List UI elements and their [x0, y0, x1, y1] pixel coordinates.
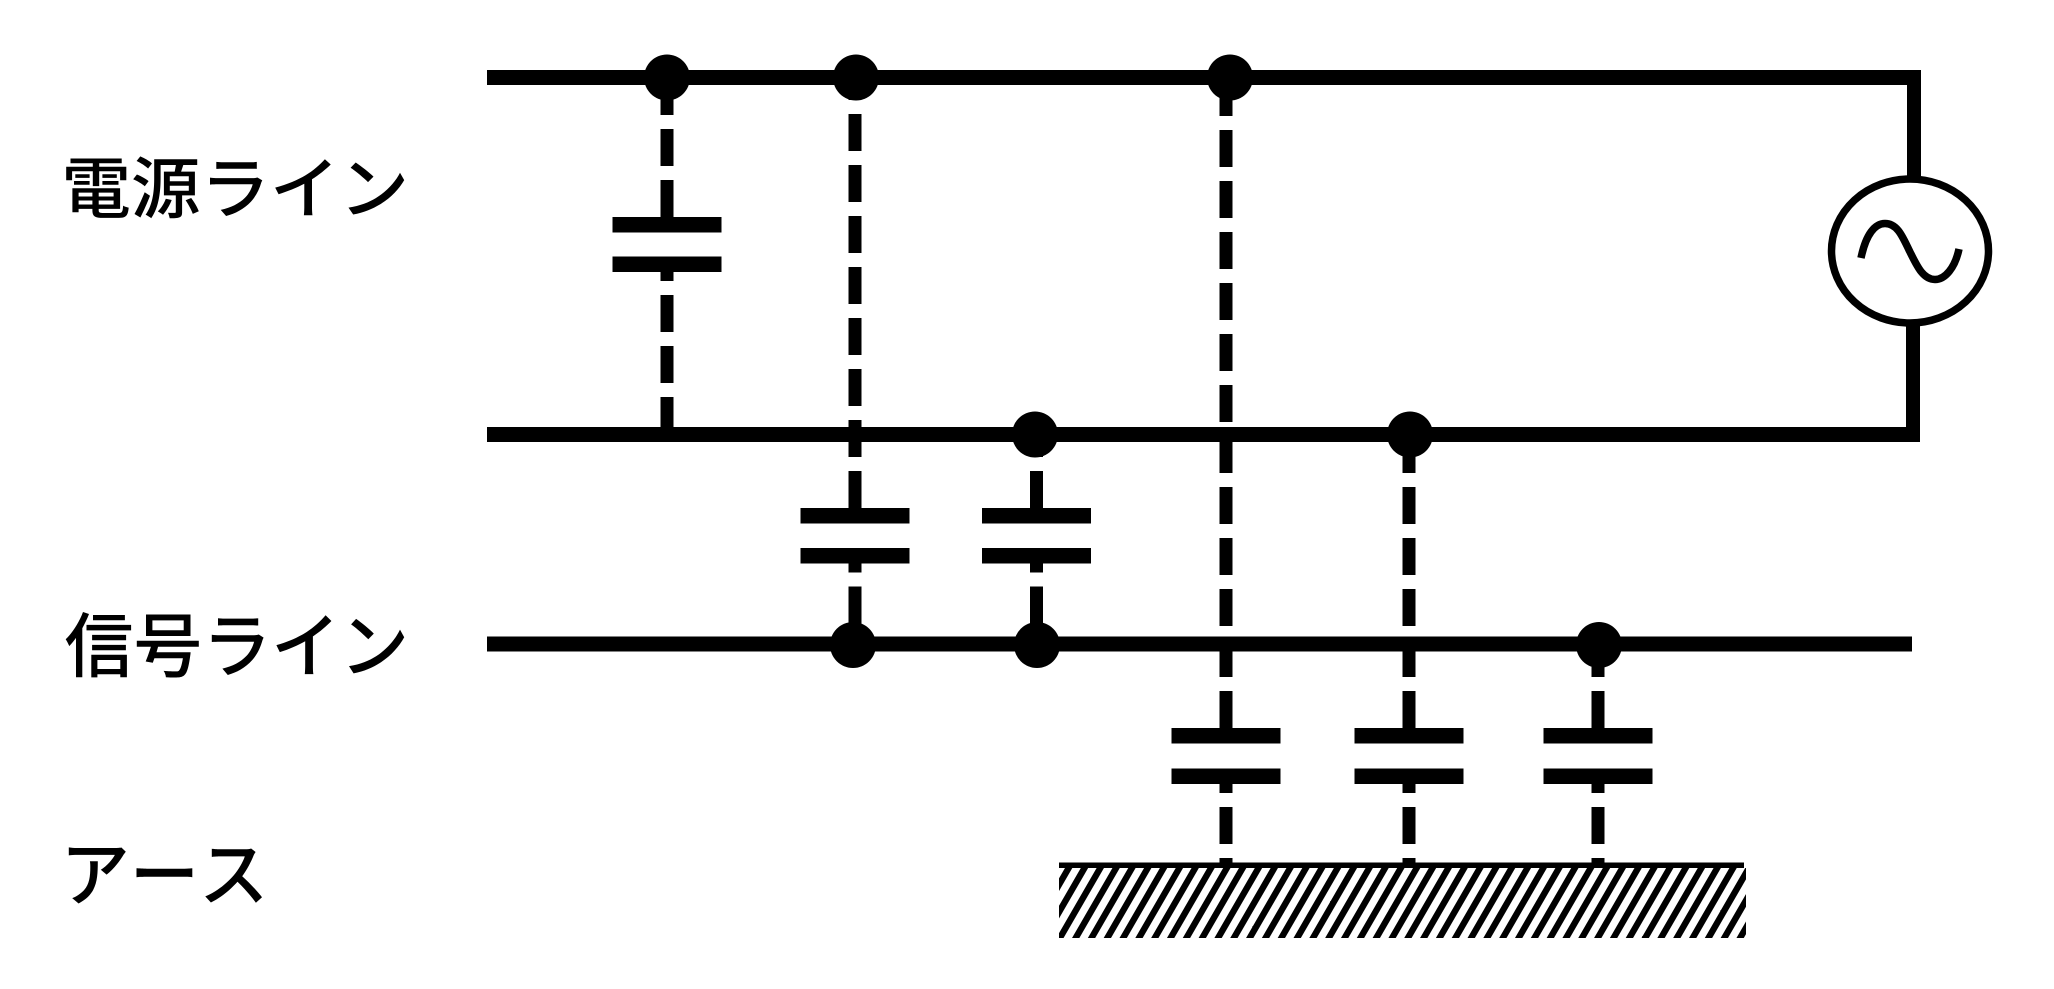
capacitor C1 plate A	[613, 217, 722, 233]
AC source V1	[1832, 179, 1989, 323]
capacitor C3 plate B	[982, 548, 1091, 564]
wire: dashed C4 bottom	[1220, 784, 1233, 866]
wire: dashed C1 top (x667)	[661, 84, 674, 217]
wire: dashed C2 bottom	[849, 564, 862, 645]
wire: right vertical from AC source to L2	[1906, 322, 1920, 442]
node: junction dot L1/C4	[1207, 55, 1253, 101]
label アース (earth)	[69, 847, 262, 903]
wire: dashed C5 bottom	[1403, 784, 1416, 866]
capacitor C2 plate A	[801, 508, 910, 524]
capacitor C1 plate B	[613, 257, 722, 273]
capacitor C6 plate A	[1544, 728, 1653, 744]
wire: dashed C4 top (x1226)	[1220, 84, 1233, 728]
capacitor C3 plate A	[982, 508, 1091, 524]
node: junction dot L2/C5	[1387, 412, 1433, 458]
capacitor C2 plate B	[801, 548, 910, 564]
wire: second power line L2	[487, 427, 1917, 442]
wire: dashed C2 top (x855)	[849, 84, 862, 508]
ground plane top edge	[1059, 863, 1744, 869]
wire: signal line L3	[487, 637, 1912, 652]
wire: right vertical from L1 to AC source	[1907, 70, 1921, 176]
capacitor C4 plate B	[1172, 769, 1281, 785]
node: junction dot L1/C1	[644, 55, 690, 101]
wire: dashed C6 top (x1598)	[1592, 651, 1605, 728]
wire: dashed C5 top (x1409)	[1403, 442, 1416, 728]
wire: top power line L1	[487, 70, 1921, 85]
wire: dashed C3 bottom	[1030, 564, 1043, 645]
wire: dashed C1 bottom	[661, 272, 674, 434]
label 信号ライン (signal line)	[66, 612, 405, 678]
node: junction dot signal/C2	[830, 622, 876, 668]
node: junction dot L1/C2	[833, 55, 879, 101]
capacitor C4 plate A	[1172, 728, 1281, 744]
node: junction dot signal/C3	[1014, 622, 1060, 668]
label 電源ライン (power line)	[66, 156, 404, 218]
ground plane hatch	[1059, 868, 1746, 938]
node: junction dot L2/C3	[1012, 412, 1058, 458]
wire: dashed C3 top (x1036)	[1030, 442, 1043, 508]
capacitor C6 plate B	[1544, 769, 1653, 785]
capacitor C5 plate B	[1355, 769, 1464, 785]
node: junction dot signal/C6	[1576, 622, 1622, 668]
capacitor C5 plate A	[1355, 728, 1464, 744]
wire: dashed C6 bottom	[1592, 784, 1605, 866]
